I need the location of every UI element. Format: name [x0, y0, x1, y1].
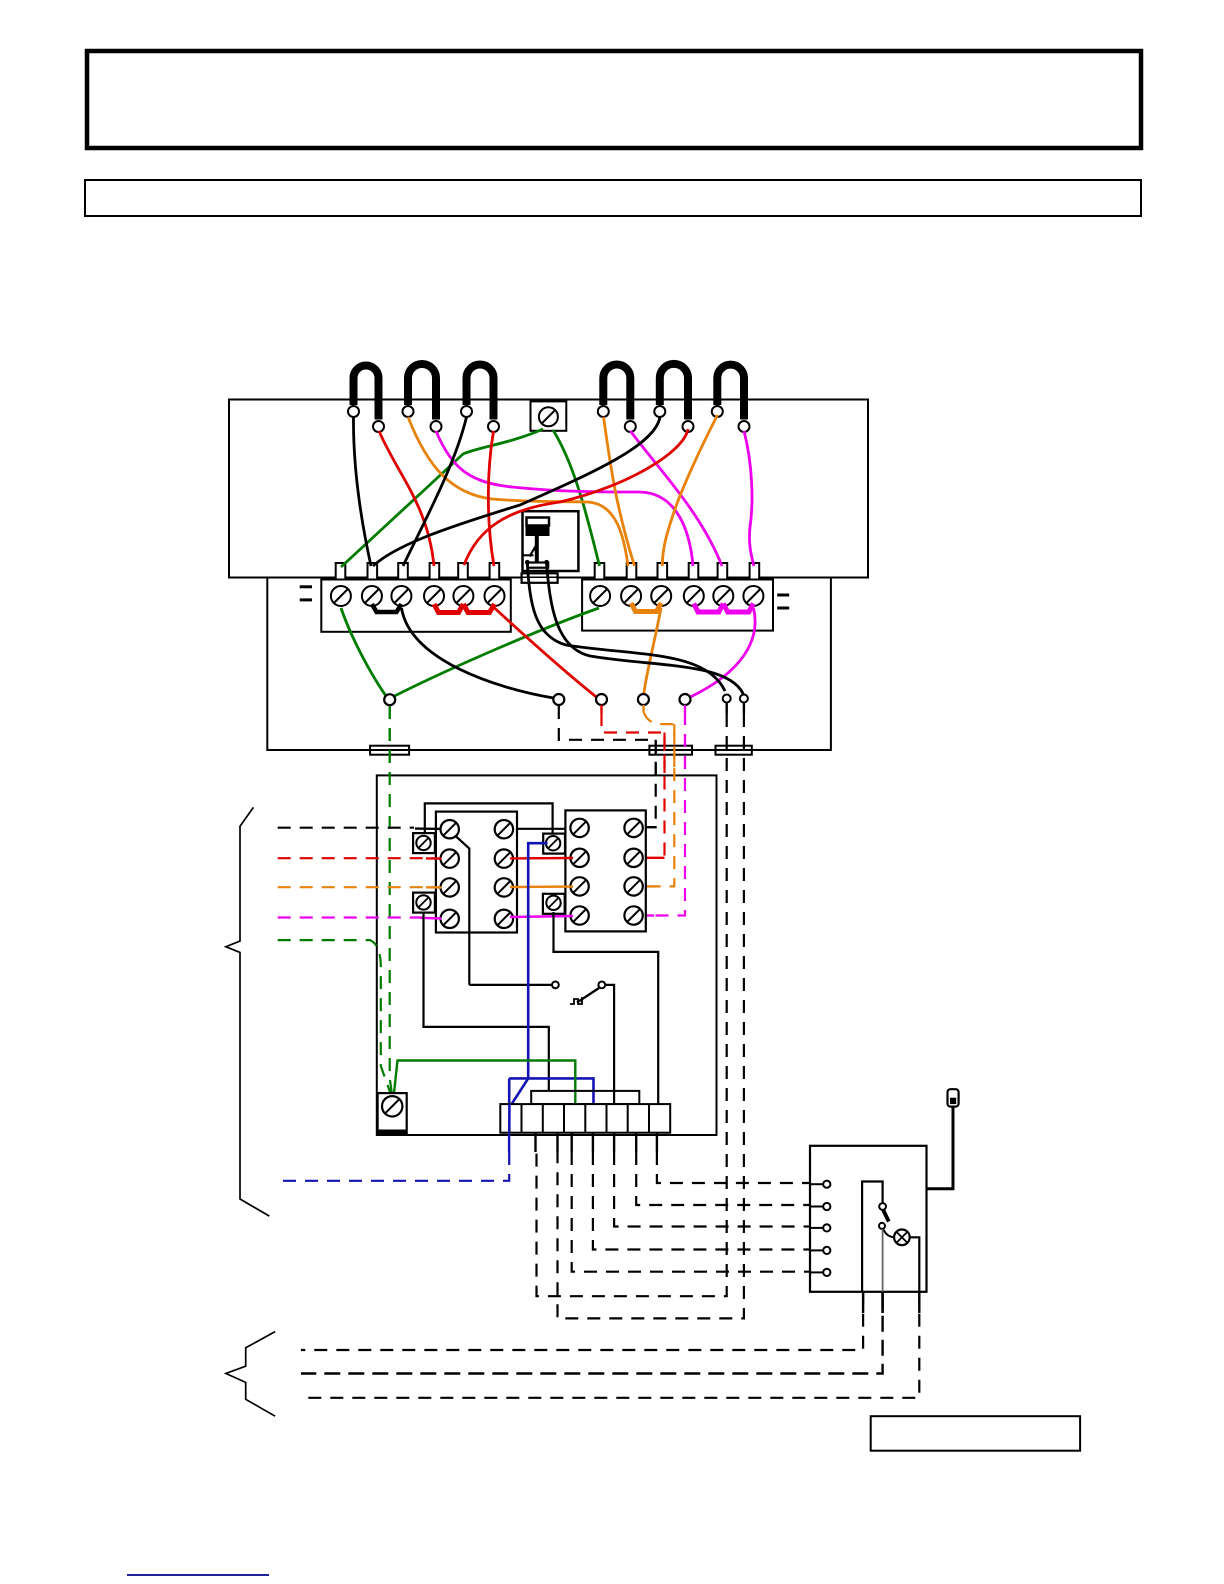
screw K2 r3c1 [570, 877, 588, 895]
stub 2 [534, 1133, 536, 1152]
node magenta [680, 694, 691, 705]
node red [596, 694, 607, 705]
jumper U2-U3 orange [631, 603, 661, 612]
wire green T1 screw to node [341, 608, 386, 696]
terminal L1a [348, 406, 359, 417]
ground screw box GS1 [531, 401, 567, 430]
wire magenta dashed inside [654, 712, 685, 916]
terminal L4b [625, 421, 636, 432]
pin 5 [823, 1269, 830, 1276]
float switch lever [530, 546, 537, 557]
lead orange tail [426, 886, 442, 889]
wire L1a black to T2 [353, 417, 371, 566]
lead orange dashed [278, 886, 437, 888]
grommet 3 [716, 746, 752, 755]
screw K2 r1c1 [570, 819, 588, 837]
pin 3 lead [810, 1227, 823, 1229]
wire red T6 screw to node [495, 608, 597, 697]
brace power leads [226, 1332, 275, 1417]
jumper T4-T5 red [434, 604, 463, 613]
subtitle bar (empty) [85, 180, 1141, 216]
terminal tab T1 [336, 563, 346, 580]
mark left pair [300, 585, 312, 588]
switch contact b [879, 1223, 885, 1229]
strip divider 3 [563, 1104, 565, 1133]
screw U6 [743, 586, 763, 606]
strip divider 1 [521, 1104, 523, 1133]
wire black dashed inside [655, 740, 657, 827]
strip divider 5 [606, 1104, 608, 1133]
route stub6 [614, 1152, 810, 1227]
terminal tab U6 [750, 563, 760, 580]
screw K2 r1c2 [624, 819, 642, 837]
screw K2 r4c2 [624, 906, 642, 924]
grommet 2 [649, 746, 692, 755]
screw box K1 lower [413, 893, 435, 913]
node black [553, 694, 564, 705]
pump switch box outline [810, 1146, 927, 1292]
route stub4 [572, 1152, 810, 1272]
wire switch to strip [605, 985, 614, 1104]
jumper U5-U6 magenta [723, 604, 753, 613]
screw K1 r4c1 [441, 910, 459, 928]
wire orange U3 screw to node [644, 608, 661, 694]
screw U3 [651, 586, 671, 606]
stub 6 [613, 1133, 615, 1152]
switch frame [862, 1182, 883, 1292]
terminal tab T4 [430, 563, 440, 580]
stub 3 [556, 1133, 558, 1152]
pin 5 lead [810, 1271, 823, 1273]
lead red dashed [278, 857, 437, 859]
terminal L2b [431, 421, 442, 432]
wire L2b magenta to U4 [436, 431, 693, 566]
indicator lamp [894, 1230, 910, 1246]
wire R6a orange to U3 [662, 415, 717, 566]
screw T1 [331, 586, 351, 606]
wire R4b magenta to U5 [631, 431, 723, 566]
raised block [531, 1091, 639, 1104]
wire loop L4 [603, 365, 630, 420]
link orange K1-K2 [510, 885, 573, 888]
screw T6 [485, 586, 505, 606]
terminal L3a [461, 406, 472, 417]
wire magenta U6 screw to node [690, 608, 755, 697]
lead red tail [426, 857, 442, 860]
wire row1 link [510, 828, 572, 830]
wire red dashed drop [600, 705, 602, 713]
screw U4 [684, 586, 704, 606]
route stub8 [657, 1152, 810, 1183]
terminal tab U3 [658, 563, 668, 580]
link red K1-K2 [510, 857, 573, 860]
drop lamp stem [301, 1292, 883, 1374]
switch blade [883, 1210, 889, 1222]
wire black T3 screw to node [402, 608, 554, 698]
screw T5 [453, 586, 473, 606]
node orange [638, 694, 649, 705]
lead blue dashed [278, 1152, 510, 1181]
node pair B [740, 695, 748, 703]
screw K1 r3c2 [495, 878, 513, 896]
grommet 1 [370, 746, 409, 755]
screw T2 [362, 586, 382, 606]
screw K2 r3c2 [624, 877, 642, 895]
strip divider 4 [584, 1104, 586, 1133]
terminal tab T6 [490, 563, 500, 580]
pin 4 [823, 1247, 830, 1254]
wire R5b red to T5 [464, 429, 688, 565]
wire L2a orange to U2 [408, 417, 628, 566]
screw K1 r2c1 [441, 849, 459, 867]
wire L3b red to T6 [488, 431, 494, 566]
blue underline mark [127, 1574, 269, 1576]
relay K1 outline [436, 812, 517, 933]
drop switch left [301, 1292, 863, 1350]
wire green node to U1 screw [395, 608, 600, 696]
wire float switch lead B [547, 564, 744, 694]
wire green ground to strip [394, 1061, 575, 1105]
screw K1 r3c1 [441, 878, 459, 896]
terminal L5a [654, 406, 665, 417]
screw K2 r4c1 [570, 906, 588, 924]
screw T4 [424, 586, 444, 606]
wire K1 diagonal [455, 836, 469, 985]
wire relay link top [425, 803, 553, 834]
relay K2 outline [565, 810, 645, 931]
wire R4a orange to U2 [604, 417, 635, 566]
link magenta K1-K2 [510, 916, 573, 917]
pin 2 lead [810, 1206, 823, 1208]
pressure switch contact 1 [552, 982, 559, 989]
terminal L4a [598, 406, 609, 417]
pin 4 lead [810, 1249, 823, 1251]
screw U5 [713, 586, 733, 606]
wire float switch lead A [527, 564, 725, 691]
wire pair B dashed drop [743, 703, 745, 715]
wire K1 lower box to strip [424, 914, 549, 1091]
motor box outline [229, 400, 868, 578]
terminal tab U2 [627, 563, 637, 580]
pump box stubs [862, 1292, 864, 1313]
terminal L1b [373, 421, 384, 432]
stub 7 [635, 1133, 637, 1152]
control box outline [377, 775, 717, 1135]
pin 2 [823, 1203, 830, 1210]
screw K1 r1c1 [441, 820, 459, 838]
wire contact to lamp [883, 1229, 894, 1238]
lead black tail [415, 827, 442, 830]
wire loop L2 [408, 364, 436, 420]
wire pair A dashed drop [726, 703, 728, 715]
terminal tab T2 [368, 563, 378, 580]
cable grommet center [522, 573, 558, 583]
terminal L2a [403, 406, 414, 417]
wire L3a black to T3 [403, 417, 467, 566]
mark right pair [777, 594, 789, 597]
lead black dashed [278, 827, 414, 829]
screw K2 r2c1 [570, 849, 588, 867]
terminal strip T [321, 580, 511, 632]
lead magenta tail [420, 917, 442, 920]
strip divider 6 [627, 1104, 629, 1133]
brace motor leads [226, 807, 269, 1216]
wire green dashed drop inside [390, 706, 392, 1093]
wire blue branch [509, 1078, 593, 1103]
wire green ground to U1 [553, 430, 600, 566]
pin 1 lead [810, 1183, 823, 1185]
ground screw [539, 407, 558, 426]
wire black dashed drop [559, 706, 656, 827]
screw U1 [590, 586, 610, 606]
title box (empty) [87, 51, 1141, 148]
screw box K2 upper [543, 834, 565, 854]
screw T3 [391, 586, 411, 606]
wire blue K2 feed [528, 843, 547, 1078]
screw U2 [621, 586, 641, 606]
terminal tab T5 [458, 563, 468, 580]
wire R5a black to T2 [373, 417, 660, 566]
strip divider 7 [648, 1104, 650, 1133]
stub 8 [656, 1133, 658, 1152]
stub 4 [571, 1133, 573, 1152]
strip divider 2 [542, 1104, 544, 1133]
terminal tab U4 [689, 563, 699, 580]
pin 3 [823, 1224, 830, 1231]
wire green dashed drop [390, 706, 392, 1094]
wire loop L6 [717, 365, 744, 420]
wire loop L3 [467, 365, 494, 420]
float switch stem [535, 536, 539, 563]
route stub5 [593, 1152, 810, 1250]
terminal tab T3 [398, 563, 408, 580]
wire loop L5 [660, 364, 688, 420]
wire red dashed inside [663, 733, 665, 858]
pressure switch contact 2 [598, 982, 605, 989]
wire magenta dashed drop [684, 705, 686, 712]
wire R6b magenta to U6 [744, 431, 754, 566]
wire orange dashed inside [656, 724, 674, 886]
wire K2 lower box to strip [554, 912, 659, 1104]
terminal strip U [582, 580, 773, 631]
wire lamp to frame [910, 1237, 920, 1292]
stub 1 [508, 1133, 510, 1152]
screw K2 r2c2 [624, 849, 642, 867]
wire switch feed [469, 984, 551, 986]
stub 5 [592, 1133, 594, 1152]
node pair A [723, 695, 731, 703]
ground lug screw [382, 1096, 402, 1116]
float switch body [527, 518, 550, 526]
terminal L6b [739, 421, 750, 432]
terminal L6a [712, 406, 723, 417]
pin 1 [823, 1181, 830, 1188]
screw K1 r4c2 [495, 910, 513, 928]
lead green dashed [278, 940, 390, 1092]
drop switch right [301, 1292, 919, 1398]
node green [384, 694, 395, 705]
terminal tab U5 [718, 563, 728, 580]
screw K1 r2c2 [495, 849, 513, 867]
float switch contact bar [528, 563, 548, 568]
screw K1 r1c2 [495, 820, 513, 838]
screw box K1 upper [413, 833, 435, 853]
lower junction box outline [267, 578, 831, 751]
plug cord [927, 1107, 954, 1189]
switch contact a [879, 1203, 886, 1210]
wire green ground to T1 [341, 429, 543, 567]
jumper U4-U5 magenta [694, 604, 724, 613]
label box (empty) [871, 1416, 1080, 1451]
jumper T5-T6 red [463, 604, 494, 613]
float switch box FS1 [523, 511, 579, 571]
wire orange dashed drop [642, 705, 645, 712]
pressure switch lever [577, 988, 599, 1003]
ground lug box [378, 1093, 407, 1134]
wire blue in cell [508, 1104, 511, 1132]
route stub7 [636, 1152, 810, 1205]
screw box K2 lower [543, 894, 565, 914]
wire loop L1 [354, 366, 379, 420]
terminal L5b [683, 421, 694, 432]
wire L1b red to T4 [379, 431, 434, 566]
bottom terminal strip [500, 1104, 670, 1133]
terminal tab U1 [595, 563, 605, 580]
plug [948, 1089, 959, 1106]
lead magenta dashed [278, 916, 432, 918]
terminal L3b [488, 421, 499, 432]
lamp gray stem [882, 1229, 884, 1292]
jumper T2-T3 black [372, 604, 402, 612]
